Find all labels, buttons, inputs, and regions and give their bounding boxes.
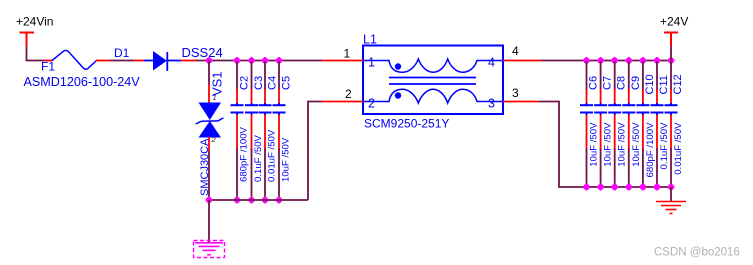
svg-text:2: 2 xyxy=(345,87,352,101)
svg-text:0.1uF /50V: 0.1uF /50V xyxy=(253,134,264,182)
wire bottom rail right to ground xyxy=(670,187,672,202)
capacitor C10 xyxy=(636,57,649,191)
capacitor C3 xyxy=(245,57,258,204)
svg-text:2: 2 xyxy=(211,135,217,144)
svg-text:F1: F1 xyxy=(41,60,55,74)
svg-text:C8: C8 xyxy=(616,76,628,90)
capacitor C2 xyxy=(231,57,244,204)
svg-text:10uF /50V: 10uF /50V xyxy=(603,122,614,167)
wire F1 to D1 xyxy=(110,60,134,62)
ground (power ground, right) xyxy=(656,202,686,214)
svg-text:C4: C4 xyxy=(267,76,279,90)
svg-text:ASMD1206-100-24V: ASMD1206-100-24V xyxy=(24,75,141,89)
wire from +24Vin to F1 xyxy=(27,46,45,61)
svg-text:+24V: +24V xyxy=(660,15,688,29)
svg-text:4: 4 xyxy=(488,56,495,70)
svg-text:C11: C11 xyxy=(658,75,670,94)
svg-text:2: 2 xyxy=(368,97,375,111)
inductor (common-mode choke) L1 xyxy=(322,46,541,115)
wire D1 to L1 pin1 (top rail left) xyxy=(196,60,322,62)
capacitor C12 xyxy=(665,57,678,191)
svg-text:+24Vin: +24Vin xyxy=(16,15,53,29)
svg-text:4: 4 xyxy=(512,44,519,58)
svg-text:C6: C6 xyxy=(588,76,600,90)
capacitor C11 xyxy=(651,57,664,191)
svg-text:10uF /50V: 10uF /50V xyxy=(617,122,628,167)
svg-text:0.01uF /50V: 0.01uF /50V xyxy=(673,122,684,175)
svg-text:VS1: VS1 xyxy=(210,71,225,96)
wire L1 pin2 down to bottom rail xyxy=(308,102,322,201)
TVS diode VS1 xyxy=(196,61,224,152)
power port +24V xyxy=(664,33,678,61)
svg-text:C9: C9 xyxy=(630,76,642,90)
svg-text:10uF /50V: 10uF /50V xyxy=(631,122,642,167)
capacitor C6 xyxy=(580,57,593,191)
svg-text:D1: D1 xyxy=(114,46,130,60)
svg-text:10uF /50V: 10uF /50V xyxy=(281,137,292,182)
ground (magenta, selected) xyxy=(194,241,225,258)
svg-text:10uF /50V: 10uF /50V xyxy=(589,122,600,167)
svg-text:C10: C10 xyxy=(644,74,656,94)
junction bottom rail at VS1 xyxy=(205,196,212,203)
power port +24Vin xyxy=(20,33,35,47)
capacitor C4 xyxy=(259,57,272,204)
svg-text:C5: C5 xyxy=(281,76,293,90)
svg-text:C2: C2 xyxy=(239,76,251,90)
bottom rail left xyxy=(209,199,308,201)
svg-text:0.1uF /50V: 0.1uF /50V xyxy=(659,122,670,170)
svg-text:C7: C7 xyxy=(602,76,614,90)
svg-text:SCM9250-251Y: SCM9250-251Y xyxy=(364,117,449,131)
wire VS1 to bottom rail xyxy=(208,151,210,200)
svg-text:680pF /100V: 680pF /100V xyxy=(239,126,250,182)
fuse F1 xyxy=(44,50,110,69)
svg-text:C3: C3 xyxy=(253,76,265,90)
wire L1 pin3 down to bottom rail right xyxy=(539,102,671,188)
capacitor C7 xyxy=(594,57,607,191)
capacitor C5 xyxy=(273,57,286,204)
svg-text:C12: C12 xyxy=(672,74,684,94)
svg-text:0.01uF /50V: 0.01uF /50V xyxy=(267,129,278,182)
capacitor C9 xyxy=(622,57,635,191)
wire VS1 to ground xyxy=(208,200,210,243)
svg-text:680pF /100V: 680pF /100V xyxy=(645,122,656,178)
svg-text:1: 1 xyxy=(344,47,351,61)
svg-text:3: 3 xyxy=(512,86,519,100)
svg-text:L1: L1 xyxy=(363,33,377,47)
wire L1 pin4 to +24V rail xyxy=(541,60,671,62)
svg-text:CSDN @bo2016: CSDN @bo2016 xyxy=(654,247,740,259)
svg-text:3: 3 xyxy=(488,97,495,111)
svg-text:DSS24: DSS24 xyxy=(182,45,223,60)
capacitor C8 xyxy=(608,57,621,191)
junction at VS1 tap xyxy=(205,57,212,64)
diode D1 xyxy=(134,51,196,71)
svg-text:1: 1 xyxy=(368,56,375,70)
